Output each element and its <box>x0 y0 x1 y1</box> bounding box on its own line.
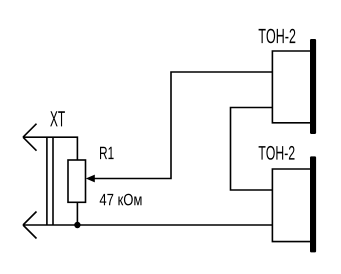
node: junction R1 bottom on ground bus <box>74 222 80 228</box>
connector XT pin 1 arrow <box>23 124 37 151</box>
wire BF1 lower terminal to BF2 upper terminal <box>231 108 273 191</box>
wire ground bus: XT pin 2 to BF2 lower terminal <box>23 224 272 226</box>
headphone BF2 coil box <box>272 169 310 242</box>
value label "47 кОм" <box>100 194 142 206</box>
connector XT pin 2 arrow <box>23 212 37 239</box>
resistor R1 body <box>68 160 86 202</box>
wire R1 wiper to BF1 upper terminal <box>94 72 272 179</box>
headphone BF2 membrane bar <box>310 156 316 252</box>
resistor R1 bottom lead <box>76 202 78 225</box>
label "ТОН-2" (top headphone) <box>259 29 296 44</box>
headphone BF1 coil box <box>272 51 310 123</box>
wire XT pin 1 to R1 top lead <box>23 137 77 160</box>
connector XT socket contact line a <box>46 137 48 225</box>
label "R1" <box>100 147 114 159</box>
headphone BF1 membrane bar <box>310 39 316 134</box>
connector XT socket contact line b <box>52 137 54 225</box>
connector XT label "ХТ" <box>50 111 65 126</box>
R1 wiper arrowhead <box>86 175 95 183</box>
label "ТОН-2" (bottom headphone) <box>259 146 295 160</box>
